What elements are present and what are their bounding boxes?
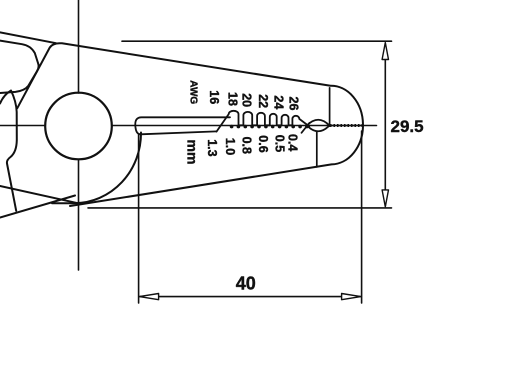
handle cam upper lobe (0, 41, 39, 93)
dim 29.5 top arrowhead (382, 43, 388, 60)
dim 40 right arrowhead (342, 294, 361, 300)
svg-text:29.5: 29.5 (391, 117, 424, 136)
centerline horizontal left segment (0, 125, 45, 127)
notch hole dots (230, 125, 309, 129)
stripping slot: top edge, rounded left cap, bottom edge (135, 117, 230, 134)
pivot circle (45, 93, 112, 160)
centerline vertical lower segment (78, 159, 80, 270)
gripper serration base line (330, 125, 363, 127)
svg-text:mm: mm (185, 140, 201, 165)
centerline horizontal right tail (362, 125, 377, 127)
dim 29.5 bottom arrowhead (382, 190, 388, 207)
eye lower-left edge line (302, 123, 310, 133)
lower handle edge b2 (0, 196, 75, 218)
svg-text:0.6: 0.6 (256, 135, 270, 152)
svg-text:22: 22 (256, 94, 270, 108)
svg-text:0.8: 0.8 (240, 137, 254, 154)
dim 40 dimension line (140, 296, 360, 298)
dim 40 left extension line (138, 135, 140, 304)
centerline horizontal through slot (112, 125, 329, 127)
blade edge below eye (316, 132, 318, 167)
dim 29.5 dimension line (384, 44, 386, 207)
svg-text:1.3: 1.3 (205, 139, 219, 156)
stripping notch ramp and six arches (217, 111, 310, 132)
svg-text:AWG: AWG (187, 80, 198, 104)
svg-text:40: 40 (236, 273, 256, 293)
head outline: jaw edge, top edge, nose cap, bottom edge (17, 43, 363, 206)
svg-text:24: 24 (272, 95, 286, 109)
svg-text:0.4: 0.4 (286, 134, 300, 151)
stripper eye (307, 120, 330, 132)
gripper serration teeth (330, 124, 362, 127)
dim 29.5 bottom extension line (88, 207, 392, 209)
svg-text:1.0: 1.0 (223, 138, 237, 155)
svg-text:18: 18 (226, 92, 240, 106)
blade edge above eye (329, 88, 331, 126)
dim 40 right extension line (361, 131, 363, 303)
centerline vertical upper segment (78, 0, 80, 93)
dim 29.5 top extension line (122, 40, 392, 42)
svg-text:26: 26 (287, 97, 301, 111)
svg-text:16: 16 (207, 90, 221, 104)
dim 40 left arrowhead (139, 294, 158, 300)
upper handle top edge line (0, 32, 56, 43)
handle lower lobe and edge (0, 91, 17, 211)
jaw inner curve (52, 133, 141, 204)
svg-text:20: 20 (240, 93, 254, 107)
lower handle edge b1 (0, 186, 80, 204)
svg-text:0.5: 0.5 (273, 135, 287, 152)
